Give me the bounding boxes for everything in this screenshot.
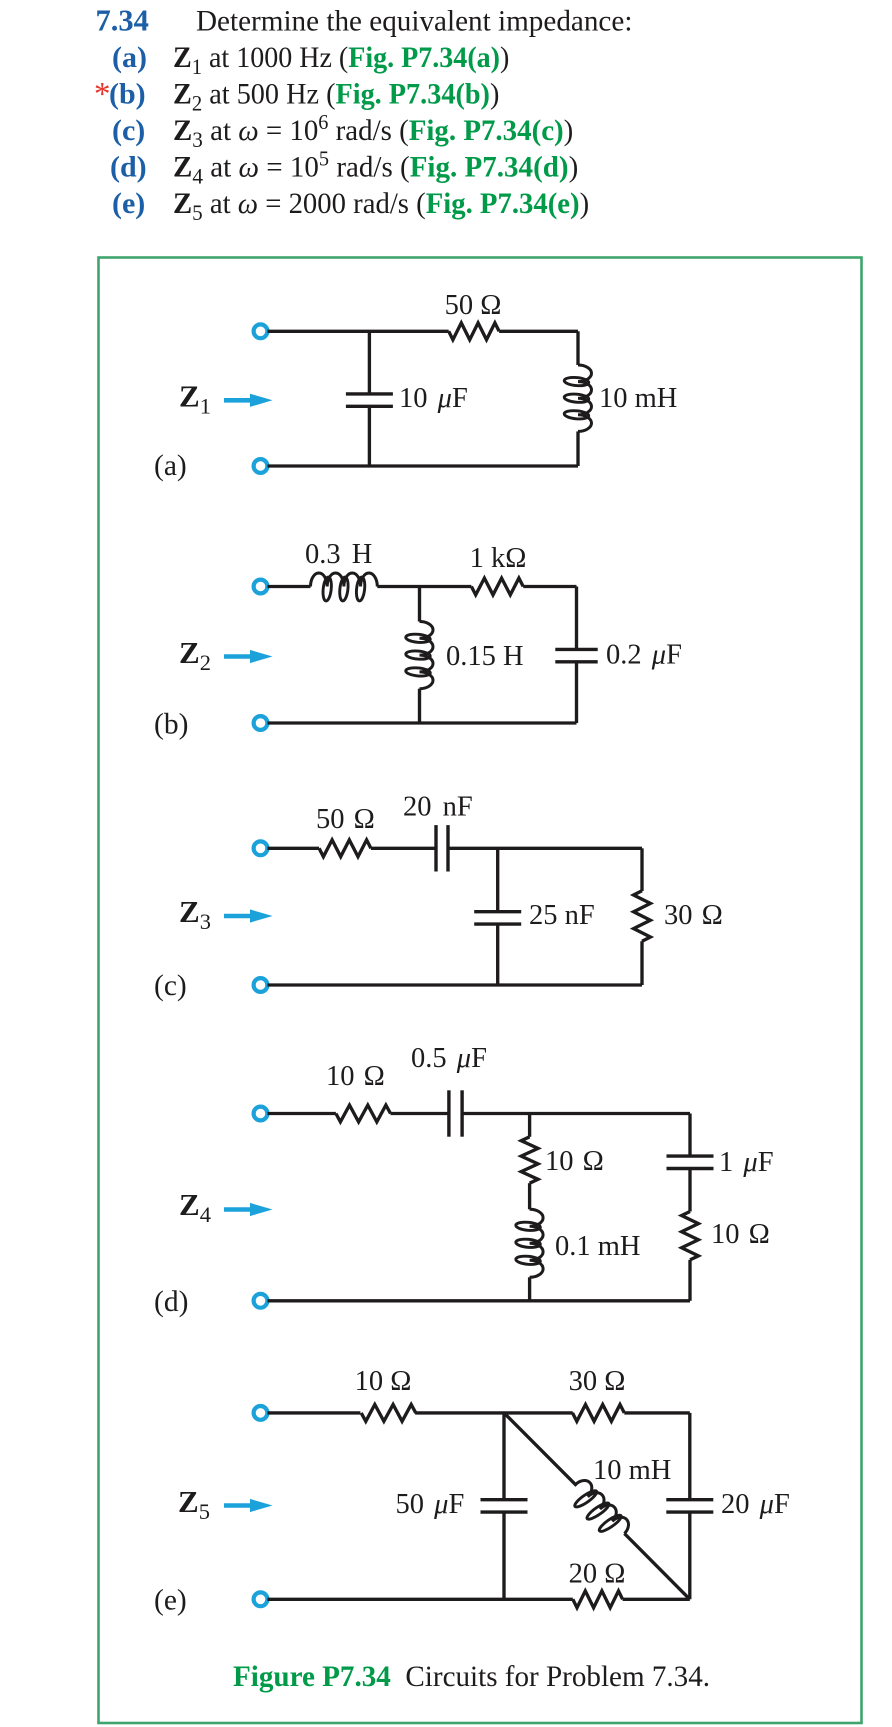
circuit (d) middle branch wire mid	[528, 1183, 531, 1209]
circuit (b) top wire middle	[377, 585, 471, 588]
svg-text:Z3 at ω = 106 rad/s (Fig. P7.3: Z3 at ω = 106 rad/s (Fig. P7.34(c))	[173, 112, 573, 152]
svg-text:7.34: 7.34	[96, 4, 149, 38]
circuit (a) capacitor 10 uF branch wire lower	[368, 406, 371, 466]
svg-text:Z5 at ω = 2000 rad/s (Fig. P7.: Z5 at ω = 2000 rad/s (Fig. P7.34(e))	[173, 187, 589, 225]
header line 5: Z4 at w=10^5 rad/s	[173, 148, 578, 188]
circuit (c) terminal top	[254, 841, 268, 855]
circuit (b) inductor 0.3 H	[311, 573, 378, 587]
circuit (d) right wire lower	[688, 1260, 691, 1301]
circuit (b) terminal top	[254, 580, 268, 594]
circuit (e) resistor 20 ohm (bottom)	[573, 1591, 623, 1608]
svg-text:3: 3	[200, 909, 211, 934]
svg-text:(e): (e)	[112, 187, 145, 220]
circuit (b) middle branch wire lower	[418, 689, 421, 723]
circuit (c) middle branch wire lower	[496, 924, 499, 985]
svg-text:(b): (b)	[154, 709, 188, 741]
circuit (e) terminal bottom	[254, 1592, 268, 1606]
figure border frame	[99, 258, 862, 1724]
circuit (c) resistor 50 ohm	[319, 840, 371, 857]
svg-text:10 μF: 10 μF	[399, 383, 468, 414]
circuit (a) right wire lower	[576, 431, 579, 466]
circuit (c) right wire lower	[640, 941, 643, 985]
circuit (c) top wire mid1	[371, 847, 436, 850]
svg-text:10 Ω: 10 Ω	[355, 1366, 412, 1397]
svg-text:Z: Z	[179, 894, 200, 929]
circuit (d) resistor 10 ohm (top)	[336, 1105, 391, 1122]
circuit (e) right wire upper	[688, 1413, 691, 1500]
circuit (b) bottom wire	[268, 721, 577, 724]
svg-text:10 Ω: 10 Ω	[711, 1219, 770, 1250]
circuit (e) inductor 10 mH (diagonal)	[564, 1476, 633, 1545]
svg-text:4: 4	[200, 1202, 211, 1227]
circuit (c) capacitor 25 nF	[474, 910, 521, 913]
svg-text:25 nF: 25 nF	[529, 900, 595, 931]
circuit (b) capacitor 0.2 uF	[555, 648, 597, 651]
circuit (a) capacitor 10 uF branch wire upper	[368, 331, 371, 394]
circuit (d) terminal top	[254, 1107, 268, 1121]
circuit (b) middle branch wire upper	[418, 587, 421, 622]
circuit (d) top wire mid1	[391, 1112, 449, 1115]
svg-text:0.2 μF: 0.2 μF	[606, 640, 682, 671]
circuit (e) terminal top	[254, 1406, 268, 1420]
svg-text:1: 1	[200, 394, 211, 419]
svg-text:10 mH: 10 mH	[599, 383, 677, 414]
svg-text:Z: Z	[179, 635, 200, 670]
circuit (c) top wire mid2	[448, 847, 642, 850]
circuit (a) resistor 50 ohm	[449, 323, 499, 340]
circuit (d) middle branch wire upper	[528, 1114, 531, 1137]
header line 1: problem statement	[196, 5, 632, 37]
circuit (e) resistor 10 ohm	[361, 1405, 416, 1422]
circuit (d) capacitor 1 uF	[667, 1154, 714, 1157]
circuit (b) right wire upper	[575, 587, 578, 650]
figure caption	[233, 1661, 710, 1693]
circuit (a) capacitor 10 uF	[346, 392, 393, 395]
circuit (e) middle branch wire lower	[502, 1512, 505, 1599]
circuit (c) bottom wire	[268, 983, 643, 986]
header line 6: Z5 at w=2000 rad/s	[173, 187, 589, 225]
svg-text:(a): (a)	[154, 450, 187, 482]
circuit (e) bottom wire right	[623, 1598, 690, 1601]
svg-text:Determine the equivalent imped: Determine the equivalent impedance:	[196, 5, 632, 37]
svg-text:1 kΩ: 1 kΩ	[470, 543, 527, 574]
circuit (a) terminal top	[254, 324, 268, 338]
circuit (e) resistor 30 ohm	[573, 1405, 625, 1422]
svg-text:(d): (d)	[110, 151, 147, 184]
circuit (d) middle branch wire lower	[528, 1277, 531, 1301]
svg-text:Figure P7.34 Circuits for Prob: Figure P7.34 Circuits for Problem 7.34.	[233, 1661, 710, 1693]
svg-text:Z: Z	[179, 1187, 200, 1222]
svg-text:(c): (c)	[154, 970, 187, 1002]
svg-text:2: 2	[200, 650, 211, 675]
circuit (e) capacitor 50 uF	[481, 1498, 528, 1501]
svg-text:5: 5	[199, 1499, 210, 1524]
svg-text:Z2 at 500 Hz (Fig. P7.34(b)): Z2 at 500 Hz (Fig. P7.34(b))	[173, 78, 499, 116]
circuit (b) right wire lower	[575, 661, 578, 723]
svg-text:50 Ω: 50 Ω	[445, 290, 502, 321]
circuit (e) top wire left	[268, 1411, 361, 1414]
circuit (e) middle branch wire upper	[502, 1413, 505, 1500]
svg-text:0.15 H: 0.15 H	[446, 641, 524, 672]
circuit (e) bottom wire left	[268, 1598, 573, 1601]
circuit (b) resistor 1 kohm	[471, 578, 523, 595]
circuit (c) input arrow	[224, 914, 252, 919]
circuit (a) inductor 10 mH	[578, 365, 591, 431]
circuit (a) input arrow	[224, 398, 252, 403]
circuit (d) bottom wire	[268, 1299, 691, 1302]
svg-text:10 mH: 10 mH	[593, 1455, 671, 1486]
svg-text:10 Ω: 10 Ω	[326, 1061, 385, 1092]
circuit (a) top wire left	[268, 330, 449, 333]
circuit (e) capacitor 20 uF	[666, 1498, 713, 1501]
svg-text:50 μF: 50 μF	[396, 1489, 465, 1520]
circuit (a) terminal bottom	[254, 459, 268, 473]
svg-text:1 μF: 1 μF	[719, 1147, 774, 1178]
circuit (a) top wire right	[499, 330, 578, 333]
circuit (b) input arrow	[224, 654, 252, 659]
svg-text:0.5 μF: 0.5 μF	[411, 1043, 487, 1074]
svg-text:0.3 H: 0.3 H	[305, 539, 372, 570]
circuit (d) right wire upper	[688, 1114, 691, 1157]
circuit (e) input arrow	[224, 1503, 252, 1508]
circuit (e) diagonal wire lower	[624, 1534, 689, 1600]
circuit (c) middle branch wire upper	[496, 848, 499, 912]
circuit (b) inductor 0.15 H	[420, 622, 434, 689]
circuit (d) resistor 10 ohm (right)	[682, 1212, 699, 1260]
svg-text:30 Ω: 30 Ω	[664, 900, 723, 931]
svg-text:(a): (a)	[112, 41, 147, 74]
svg-text:(e): (e)	[154, 1585, 187, 1617]
svg-text:20 Ω: 20 Ω	[569, 1559, 626, 1590]
circuit (c) capacitor 20 nF (series)	[434, 825, 437, 871]
svg-text:20 nF: 20 nF	[403, 792, 473, 823]
circuit (d) top wire mid2	[462, 1112, 690, 1115]
svg-text:50 Ω: 50 Ω	[316, 804, 375, 835]
svg-text:Z4 at ω = 105 rad/s (Fig. P7.3: Z4 at ω = 105 rad/s (Fig. P7.34(d))	[173, 148, 578, 188]
circuit (d) terminal bottom	[254, 1294, 268, 1308]
svg-text:30 Ω: 30 Ω	[569, 1366, 626, 1397]
svg-text:(b): (b)	[109, 78, 146, 111]
svg-text:10 Ω: 10 Ω	[545, 1146, 604, 1177]
circuit (c) resistor 30 ohm (vertical)	[634, 891, 651, 941]
svg-text:20 μF: 20 μF	[721, 1489, 790, 1520]
circuit (d) input arrow	[224, 1207, 252, 1212]
svg-text:(c): (c)	[112, 114, 145, 147]
circuit (b) top wire right	[523, 585, 576, 588]
circuit (b) terminal bottom	[254, 716, 268, 730]
svg-text:0.1 mH: 0.1 mH	[555, 1231, 641, 1262]
header line 4: Z3 at w=10^6 rad/s	[173, 112, 573, 152]
circuit (e) top wire mid	[415, 1411, 573, 1414]
circuit (a) right wire upper	[576, 331, 579, 365]
circuit (d) right wire mid	[688, 1169, 691, 1212]
circuit (e) diagonal wire upper	[504, 1413, 577, 1486]
circuit (a) bottom wire	[268, 464, 579, 467]
circuit (d) top wire left	[268, 1112, 336, 1115]
circuit (d) inductor 0.1 mH	[530, 1209, 544, 1277]
svg-text:Z: Z	[178, 1484, 199, 1519]
header line 2: Z1 at 1000 Hz	[173, 41, 509, 79]
header line 3: Z2 at 500 Hz	[173, 78, 499, 116]
svg-text:Z1 at 1000 Hz (Fig. P7.34(a)): Z1 at 1000 Hz (Fig. P7.34(a))	[173, 41, 509, 79]
circuit (b) top wire left	[268, 585, 311, 588]
circuit (d) capacitor 0.5 uF (series)	[447, 1090, 450, 1136]
svg-text:Z: Z	[179, 379, 200, 414]
circuit (e) top wire right	[624, 1411, 690, 1414]
svg-text:(d): (d)	[154, 1286, 188, 1318]
circuit (c) terminal bottom	[254, 978, 268, 992]
circuit (d) resistor 10 ohm (middle)	[521, 1137, 538, 1183]
circuit (c) right wire upper	[640, 848, 643, 891]
circuit (e) right wire lower	[688, 1512, 691, 1599]
circuit (c) top wire left	[268, 847, 320, 850]
